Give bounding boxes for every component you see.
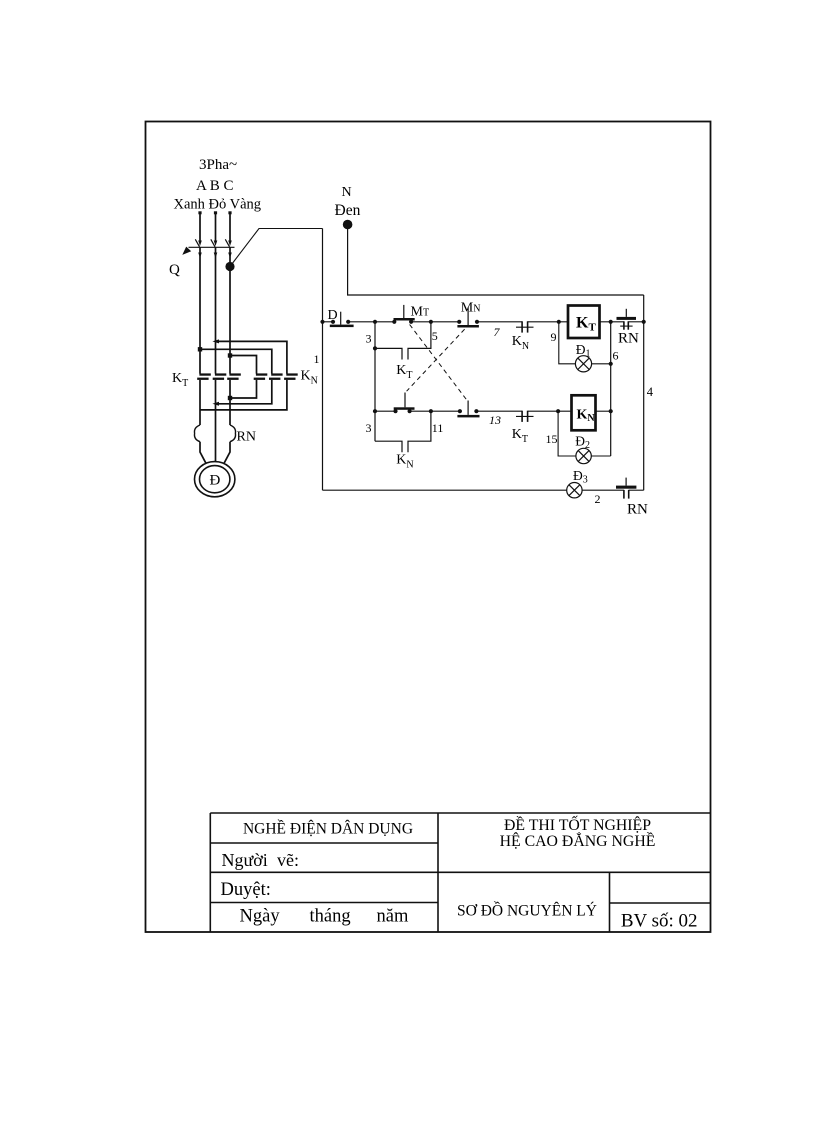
- contact KN NC in KT branch: [516, 321, 534, 332]
- svg-text:KT: KT: [396, 363, 412, 381]
- node N terminal: [343, 220, 353, 230]
- coil KT: [568, 306, 600, 339]
- pushbutton MT (NO start fwd): [392, 305, 415, 324]
- wire row1 segment KN contact to coil: [528, 321, 568, 323]
- svg-text:Đ1: Đ1: [576, 342, 591, 360]
- thermal relay RN heater phase C: [230, 425, 236, 442]
- node 9 junction: [557, 320, 561, 324]
- motor D: [195, 462, 235, 497]
- wire row3 lamp to RN: [582, 489, 624, 491]
- contact RN NC row1: [617, 309, 637, 330]
- svg-text:11: 11: [432, 421, 444, 435]
- wire row1 segment RN to right rail: [628, 321, 643, 323]
- node 15 junction: [556, 409, 560, 413]
- contactor KN main contact 6: [284, 373, 298, 380]
- svg-text:5: 5: [432, 329, 438, 343]
- wire phase C to motor: [224, 442, 230, 464]
- pushbutton D (NC stop): [330, 312, 354, 327]
- svg-text:15: 15: [546, 432, 558, 446]
- wire right rail net 4: [643, 295, 645, 490]
- wire row1 segment D to MT: [348, 321, 394, 323]
- contactor KT main contact phase B: [213, 373, 227, 380]
- svg-text:3Pha~: 3Pha~: [199, 157, 237, 173]
- wire phase B upper segment: [214, 211, 217, 242]
- wire tap C to control rail: [230, 229, 323, 267]
- svg-text:KN: KN: [577, 408, 596, 425]
- svg-text:SƠ ĐỒ NGUYÊN LÝ: SƠ ĐỒ NGUYÊN LÝ: [457, 902, 597, 920]
- svg-text:Xanh Đỏ Vàng: Xanh Đỏ Vàng: [174, 197, 262, 213]
- contactor KT main contact phase A: [197, 373, 211, 380]
- pushbutton MN (NC interlock): [457, 307, 479, 327]
- svg-text:D: D: [328, 308, 338, 323]
- svg-text:MT: MT: [411, 305, 430, 320]
- node branch 11 on row2: [429, 409, 433, 413]
- wire row3 RN to right rail: [629, 489, 644, 491]
- svg-text:vẽ:: vẽ:: [277, 850, 299, 870]
- svg-text:Người: Người: [222, 850, 268, 870]
- svg-text:3: 3: [366, 421, 372, 435]
- svg-text:A B C: A B C: [196, 178, 234, 194]
- disconnect switch Q pole A: [195, 239, 202, 258]
- coil KN: [572, 395, 596, 430]
- svg-text:Đ2: Đ2: [575, 434, 590, 452]
- svg-text:MN: MN: [461, 300, 481, 315]
- svg-text:BV số: 02: BV số: 02: [621, 911, 698, 932]
- node net3-row2 junction: [373, 409, 377, 413]
- wire KN feed from C to contact 4: [228, 353, 257, 373]
- mechanical link MT to reverse NC: [410, 325, 467, 400]
- svg-text:Đ3: Đ3: [573, 468, 588, 486]
- wire row2 coil to net 6: [596, 410, 611, 412]
- wire phase B mid segment: [215, 247, 217, 373]
- wire row1 segment MN to KN contact: [477, 321, 522, 323]
- wire phase C mid segment: [229, 247, 231, 373]
- thermal relay RN heater phase A: [194, 425, 200, 442]
- wire phase A mid segment: [199, 247, 201, 373]
- lamp D2: [576, 448, 591, 463]
- node 6 top junction: [609, 320, 613, 324]
- contact KT NC in KN branch: [516, 411, 534, 422]
- wire phase A to motor: [200, 442, 206, 464]
- svg-text:Ngày: Ngày: [240, 907, 281, 927]
- svg-text:3: 3: [366, 332, 372, 346]
- wire mid vertical net 6: [610, 322, 612, 456]
- svg-text:6: 6: [613, 349, 619, 363]
- svg-text:Duyệt:: Duyệt:: [221, 880, 271, 900]
- wire phase A upper segment: [198, 211, 201, 242]
- wire control left rail net 1: [322, 229, 324, 491]
- mechanical link MN to forward NO: [407, 329, 465, 391]
- disconnect switch Q pole C: [225, 239, 232, 258]
- wire row1 segment coil to RN: [600, 321, 624, 323]
- contactor KT main contact phase C: [227, 373, 241, 380]
- svg-text:RN: RN: [627, 502, 648, 518]
- wire row2 segment 1: [410, 410, 460, 412]
- pushbutton MN NO contact row2: [393, 393, 414, 414]
- node rail-row1 junction: [320, 320, 324, 324]
- contact KT aux branch 3-5: [373, 322, 431, 360]
- wire phase A lower segment: [199, 380, 201, 425]
- contactor KN main contact 4: [254, 373, 268, 380]
- svg-text:KN: KN: [301, 369, 318, 387]
- svg-text:KT: KT: [512, 427, 528, 445]
- wire lamp D1 to net 6: [592, 363, 611, 365]
- svg-text:N: N: [342, 185, 352, 200]
- svg-text:Đ: Đ: [210, 473, 221, 489]
- wire row3 from left rail: [323, 489, 567, 491]
- wire row1 segment rail to D: [323, 321, 334, 323]
- node right rail row1: [642, 320, 646, 324]
- wire row2 segment 3: [528, 410, 572, 412]
- svg-text:NGHỀ ĐIỆN DÂN DỤNG: NGHỀ ĐIỆN DÂN DỤNG: [243, 821, 413, 838]
- contactor KN main contact 5: [269, 373, 283, 380]
- disconnect switch Q pole B: [211, 239, 218, 258]
- svg-text:9: 9: [551, 330, 557, 344]
- svg-text:Q: Q: [169, 262, 180, 278]
- node branch 3 on row1: [373, 320, 377, 324]
- svg-text:KT: KT: [172, 371, 188, 389]
- wire KN contact 6 output to A: [200, 380, 287, 410]
- page frame: [146, 122, 711, 933]
- wire row2 segment 2: [476, 410, 522, 412]
- svg-text:KT: KT: [576, 315, 596, 334]
- wire row1 segment MT to MN: [411, 321, 459, 323]
- svg-text:13: 13: [489, 413, 501, 427]
- svg-text:RN: RN: [237, 430, 256, 445]
- svg-text:HỆ CAO ĐẲNG NGHỀ: HỆ CAO ĐẲNG NGHỀ: [500, 831, 656, 850]
- title text Ngay thang nam: [240, 907, 409, 927]
- wire row2 segment start: [375, 410, 396, 412]
- svg-text:4: 4: [647, 385, 654, 399]
- svg-text:ĐỀ THI TỐT NGHIỆP: ĐỀ THI TỐT NGHIỆP: [504, 814, 651, 834]
- title block frame: [210, 813, 710, 932]
- wire KN contact 5 output to B: [212, 380, 271, 406]
- disconnect switch Q bar with arrow: [182, 247, 234, 255]
- lamp D3: [567, 483, 582, 498]
- lamp D1: [575, 356, 591, 372]
- contact RN NC row3: [616, 478, 636, 499]
- wire phase C upper segment: [228, 211, 231, 242]
- node lamp D1 output: [609, 362, 613, 366]
- wire lamp D2 to net 6: [591, 455, 610, 457]
- svg-text:Đen: Đen: [335, 202, 361, 219]
- lamp D1 branch wire: [559, 322, 576, 364]
- svg-text:7: 7: [494, 325, 501, 339]
- svg-text:2: 2: [595, 492, 601, 506]
- wire KN feed from B to contact 6: [212, 339, 287, 373]
- svg-text:KN: KN: [396, 453, 413, 471]
- node branch 5 on row1: [429, 320, 433, 324]
- node tap on phase C: [225, 262, 234, 271]
- node coil KN output: [609, 409, 613, 413]
- lamp D2 branch wire: [558, 411, 576, 456]
- contact KN aux branch 3-11: [375, 411, 431, 452]
- svg-text:1: 1: [314, 352, 320, 366]
- svg-text:RN: RN: [618, 331, 639, 347]
- pushbutton MT NC contact row2: [457, 401, 479, 418]
- wire KN feed from A to contact 5: [198, 347, 272, 374]
- svg-text:KN: KN: [512, 334, 529, 352]
- wire KN contact 4 output to C: [228, 380, 257, 400]
- wire phase C lower segment: [229, 380, 231, 425]
- svg-text:tháng: tháng: [310, 907, 351, 927]
- wire branch vertical net 3: [374, 322, 376, 441]
- wire N down and right: [348, 228, 644, 295]
- svg-text:năm: năm: [377, 907, 409, 927]
- wire phase B lower segment to motor: [215, 380, 217, 462]
